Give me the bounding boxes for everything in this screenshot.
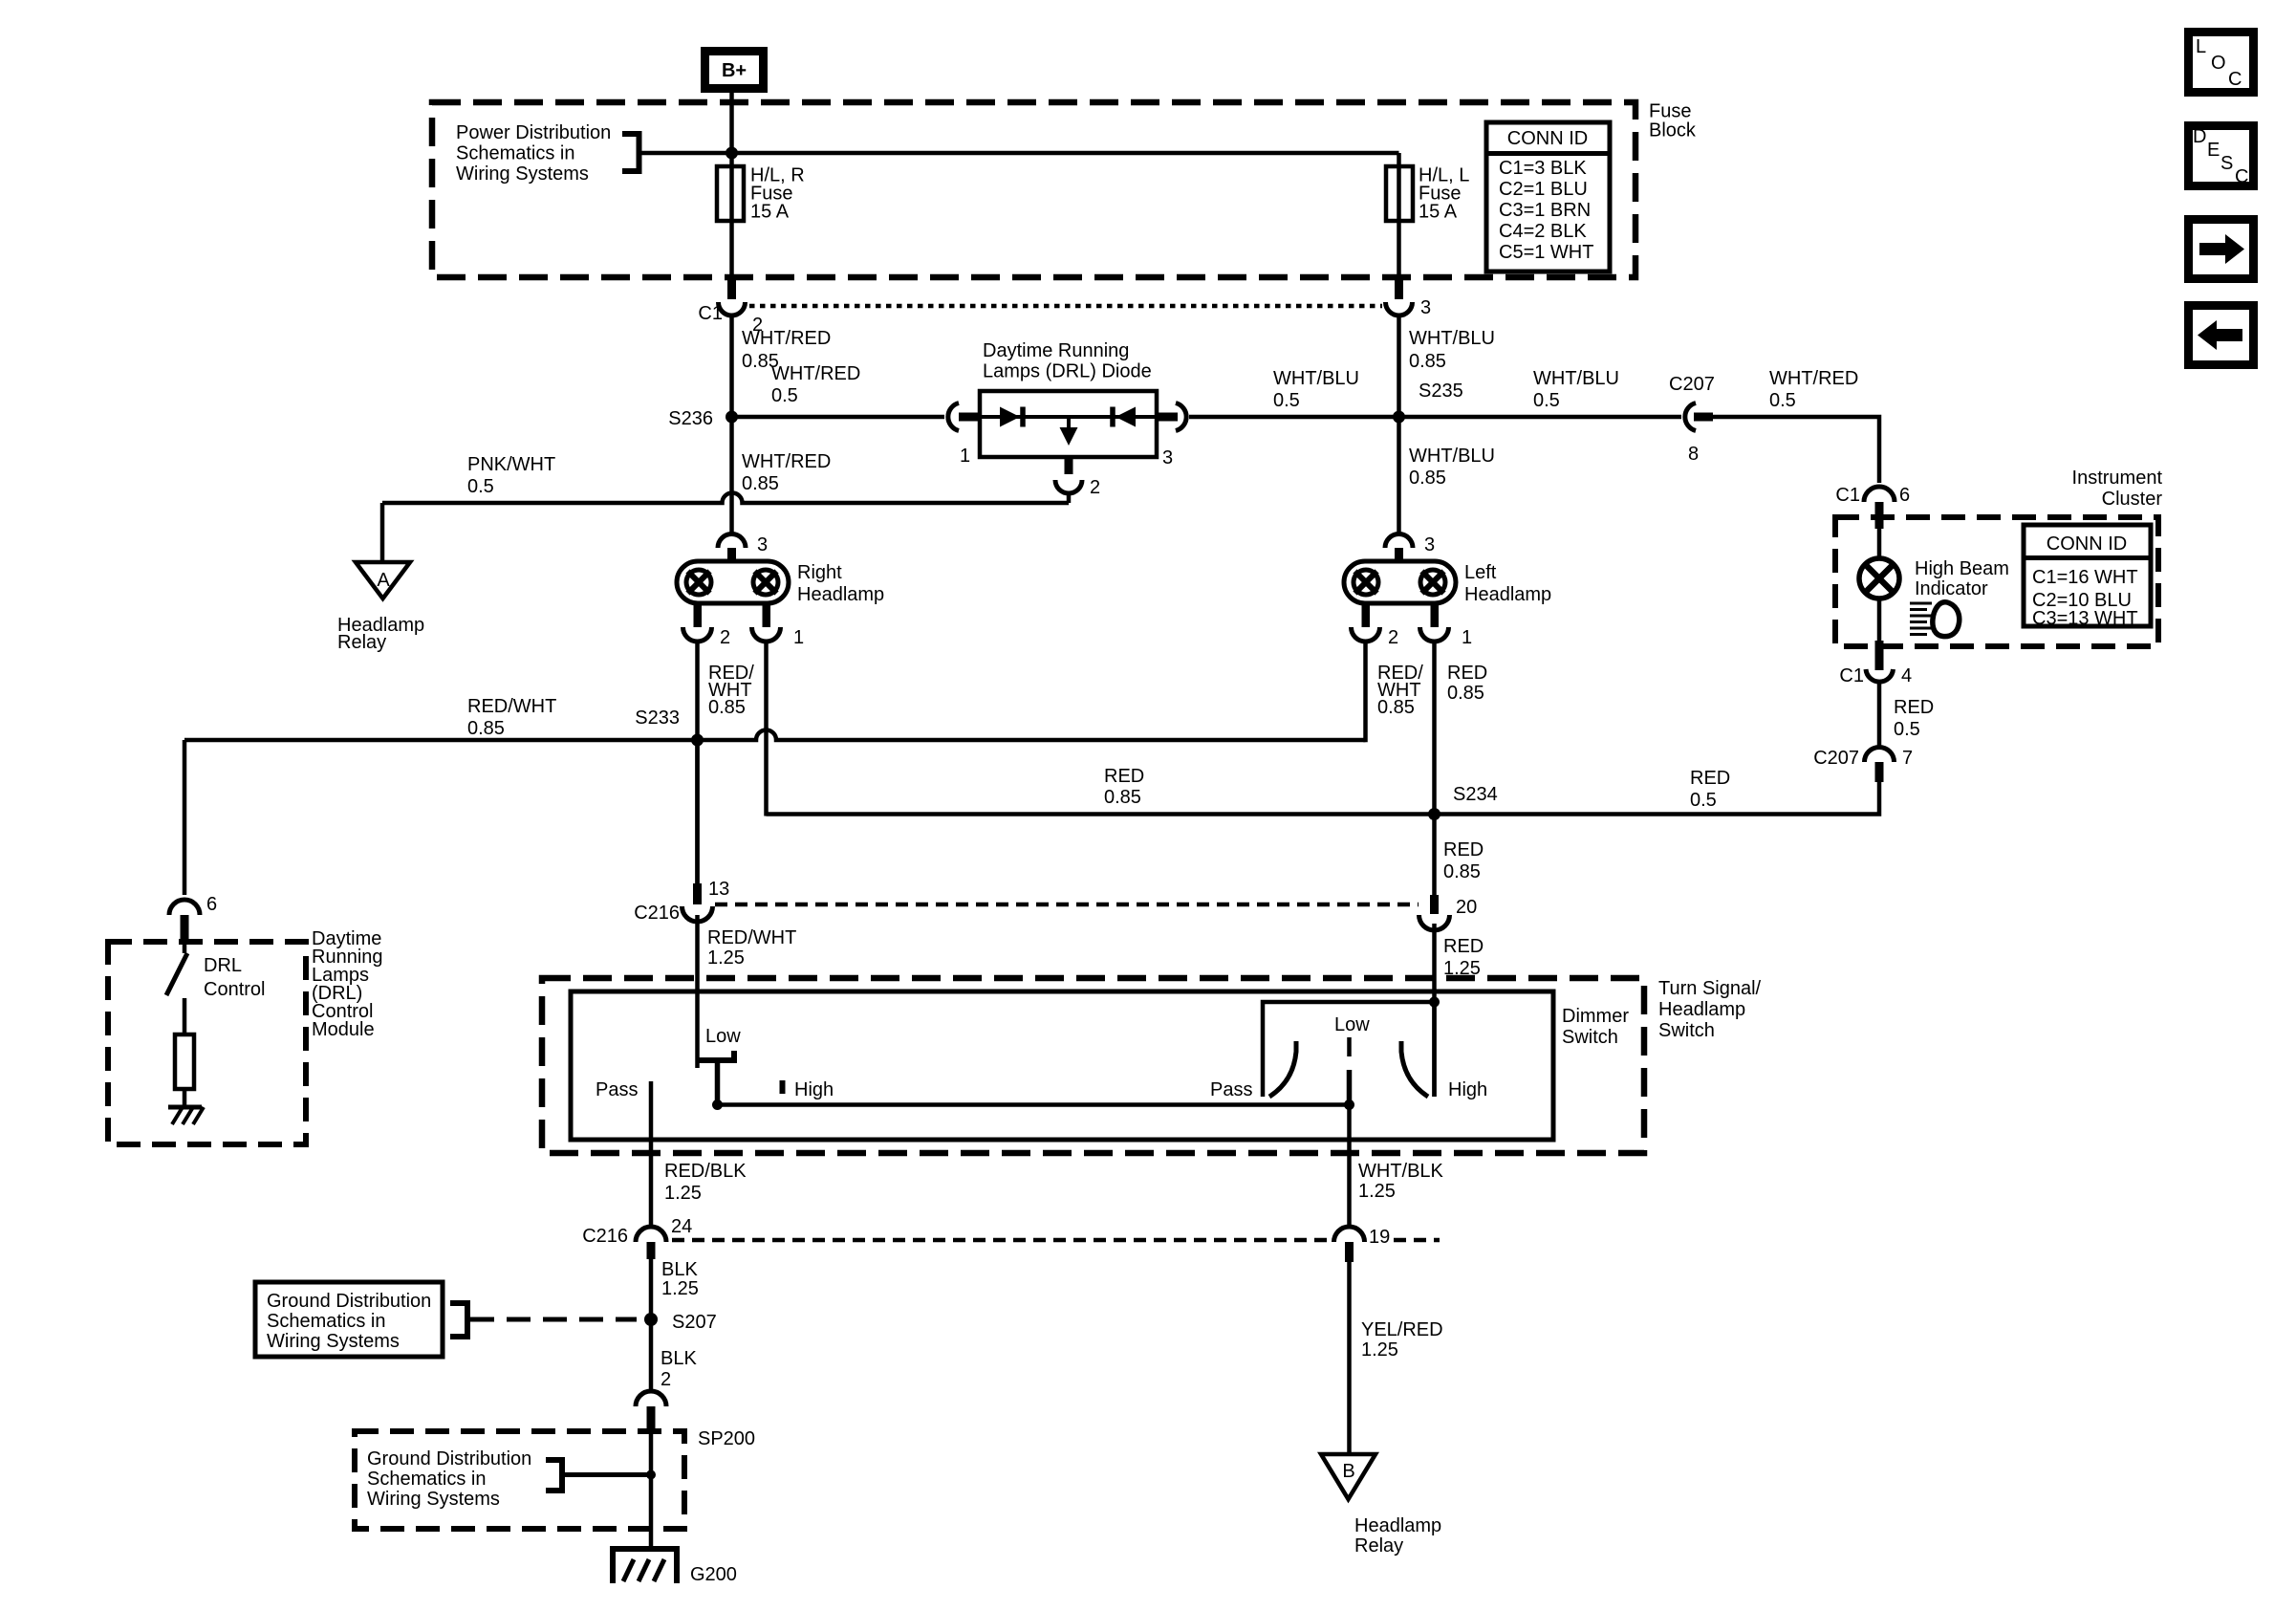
right headlamp pin 2 connector [683, 603, 731, 648]
label RED/WHT 0.85 right headlamp [708, 663, 754, 718]
high beam indicator bulb [1859, 558, 1899, 599]
svg-text:CONN ID: CONN ID [2047, 533, 2127, 555]
svg-text:13: 13 [708, 879, 729, 900]
wire power feed bus [641, 151, 1399, 156]
wire fuse R to connector C1-2 [729, 221, 734, 277]
svg-text:15 A: 15 A [1419, 202, 1458, 223]
DRL control module dashed box [108, 942, 306, 1144]
svg-text:1.25: 1.25 [707, 947, 745, 969]
connector C216 face dotted line lower [672, 1238, 1440, 1243]
SP200 dashed box [355, 1431, 684, 1529]
svg-text:1: 1 [1462, 627, 1472, 648]
svg-text:6: 6 [206, 894, 217, 915]
wire C1-6 into cluster [1877, 529, 1882, 560]
svg-text:C1: C1 [1839, 665, 1864, 686]
wire resistor to ground [183, 1089, 187, 1107]
svg-text:1: 1 [960, 446, 970, 467]
high beam indicator label [1915, 558, 2009, 599]
svg-text:Lamps (DRL) Diode: Lamps (DRL) Diode [983, 361, 1152, 382]
label BLK 2 [661, 1348, 697, 1390]
connector C216 pin 19 [1334, 1227, 1391, 1262]
label RED 0.5 right run [1690, 768, 1730, 811]
svg-text:Switch: Switch [1658, 1020, 1715, 1041]
svg-text:S: S [2220, 153, 2233, 174]
svg-text:Wiring Systems: Wiring Systems [456, 163, 589, 185]
svg-text:15 A: 15 A [750, 202, 790, 223]
connector C1 face dotted line [749, 304, 1382, 309]
wire S236 down to right headlamp [729, 417, 734, 534]
svg-text:Wiring Systems: Wiring Systems [267, 1331, 400, 1352]
wire left headlamp pin 1 down to C216-20 [1432, 640, 1437, 897]
svg-text:1.25: 1.25 [664, 1183, 702, 1204]
svg-text:0.5: 0.5 [1690, 790, 1717, 811]
svg-text:RED: RED [1443, 936, 1484, 957]
splice S235 [1393, 381, 1463, 424]
svg-text:3: 3 [1420, 297, 1431, 318]
label WHT/BLU 0.85 below S235 [1409, 446, 1495, 489]
wire S235 to C207 [1189, 415, 1399, 420]
turn signal headlamp switch label [1658, 978, 1762, 1041]
svg-text:Block: Block [1649, 120, 1697, 142]
dimmer right wiper dash [1347, 1037, 1352, 1056]
svg-text:Dimmer: Dimmer [1562, 1006, 1629, 1027]
svg-text:2: 2 [720, 627, 730, 648]
right headlamp lamp symbol [677, 561, 789, 603]
svg-text:B: B [1342, 1461, 1354, 1482]
svg-text:B+: B+ [722, 60, 747, 81]
svg-text:7: 7 [1902, 748, 1913, 769]
junction dot left contact [712, 1099, 723, 1110]
right headlamp pin 3 connector [718, 534, 768, 564]
svg-text:Right: Right [797, 562, 842, 583]
svg-text:BLK: BLK [661, 1348, 697, 1369]
wire S235 to connector C207-8 [1399, 415, 1682, 420]
wire S235 down to left headlamp [1397, 417, 1401, 534]
diode pin 2 connector below [1055, 457, 1100, 498]
splice S236 [668, 408, 738, 429]
svg-text:Module: Module [312, 1019, 375, 1040]
label RED 0.85 left headlamp [1447, 663, 1487, 704]
svg-text:Schematics in: Schematics in [456, 143, 575, 164]
splice S233 [635, 708, 704, 747]
wire left headlamp pin 2 to S233 line [1363, 640, 1368, 742]
ground distribution note box lower [367, 1448, 531, 1510]
svg-text:C1: C1 [698, 303, 723, 324]
instrument cluster connector C1 pin 4 [1839, 641, 1912, 686]
svg-text:C3=13 WHT: C3=13 WHT [2032, 608, 2138, 629]
svg-text:C2=1 BLU: C2=1 BLU [1499, 179, 1588, 200]
svg-text:CONN ID: CONN ID [1507, 128, 1588, 149]
svg-text:WHT/BLU: WHT/BLU [1409, 446, 1495, 467]
connector C207 pin 7 [1813, 748, 1913, 783]
svg-text:E: E [2207, 140, 2220, 161]
right headlamp label [797, 562, 884, 605]
wire right headlamp pin 2 down to C216-13 [695, 640, 700, 883]
svg-text:G200: G200 [690, 1564, 737, 1585]
dashed link to S207 [470, 1317, 637, 1322]
connector C216 pin 20 [1419, 895, 1478, 930]
svg-text:Power Distribution: Power Distribution [456, 122, 611, 143]
splice S207 [644, 1312, 717, 1333]
left headlamp lamp symbol [1344, 561, 1456, 603]
connector SP200 splice pack [636, 1391, 666, 1431]
svg-text:SP200: SP200 [698, 1428, 755, 1449]
off-page triangle A [356, 562, 410, 599]
svg-text:Low: Low [705, 1026, 741, 1047]
wire RED 0.85 run to instrument cluster [767, 782, 1880, 815]
svg-text:0.5: 0.5 [1273, 390, 1300, 411]
svg-text:L: L [2196, 36, 2206, 57]
label RED/WHT 1.25 [707, 927, 796, 969]
svg-text:3: 3 [757, 534, 768, 555]
wire PNK/WHT to headlamp relay with hop [382, 493, 1069, 504]
svg-text:Cluster: Cluster [2102, 489, 2163, 510]
svg-text:0.5: 0.5 [1533, 390, 1560, 411]
dimmer right feed dot [1429, 997, 1440, 1008]
power distribution note text [456, 122, 611, 185]
high beam icon [1910, 602, 1960, 637]
svg-text:High: High [794, 1079, 834, 1100]
wire C216-20 to dimmer switch [1432, 924, 1437, 1097]
svg-text:Turn Signal/: Turn Signal/ [1658, 978, 1762, 999]
svg-text:0.5: 0.5 [1769, 390, 1796, 411]
off-page triangle B [1321, 1454, 1375, 1499]
svg-text:RED: RED [1443, 839, 1484, 860]
wire bus drop to H/L L fuse [1397, 153, 1401, 166]
wire inside diode box [980, 415, 1157, 419]
fuse F2 value label [1419, 165, 1469, 223]
svg-text:C5=1 WHT: C5=1 WHT [1499, 242, 1593, 263]
svg-text:0.5: 0.5 [467, 476, 494, 497]
svg-text:C1=16 WHT: C1=16 WHT [2032, 567, 2138, 588]
svg-text:Relay: Relay [1354, 1535, 1403, 1557]
svg-text:0.85: 0.85 [1409, 351, 1446, 372]
wire WHT/BLU 0.85 C1-3 to S235 [1397, 315, 1401, 417]
svg-text:WHT/RED: WHT/RED [742, 451, 831, 472]
svg-text:RED/WHT: RED/WHT [467, 696, 556, 717]
wire WHT/RED 0.85 C1-2 to S236 [729, 315, 734, 417]
svg-text:1.25: 1.25 [1358, 1181, 1396, 1202]
svg-text:Headlamp: Headlamp [1354, 1515, 1441, 1536]
link to splice pack wire [562, 1472, 651, 1477]
dimmer right high post [1432, 1002, 1437, 1097]
junction dot right output [1344, 1099, 1354, 1110]
svg-text:0.85: 0.85 [1447, 683, 1484, 704]
junction dot at H/L R fuse tap [726, 147, 738, 160]
svg-text:Headlamp: Headlamp [797, 584, 884, 605]
connector C207 pin 8 [1669, 374, 1715, 465]
svg-text:Ground Distribution: Ground Distribution [267, 1291, 431, 1312]
wire right headlamp RED/WHT down segment [695, 740, 700, 883]
svg-text:1: 1 [793, 627, 804, 648]
svg-text:0.85: 0.85 [1443, 861, 1481, 882]
connector C1 pin 3 [1386, 274, 1432, 318]
label RED 0.5 cluster [1894, 697, 1934, 740]
wire SP200 to G200 [649, 1431, 654, 1549]
label PNK/WHT 0.5 [467, 454, 555, 497]
svg-text:Pass: Pass [596, 1079, 638, 1100]
wire C216-13 to dimmer switch [695, 915, 700, 1068]
connector C216 pin 24 [582, 1216, 692, 1259]
wire S236 to DRL diode pin 1 [732, 415, 945, 420]
wire S233 run with hop over pin1 wire [184, 730, 1366, 741]
connector C216 pin 13 [634, 879, 729, 924]
bracket for power distribution note [622, 134, 639, 171]
svg-text:O: O [2211, 53, 2226, 74]
svg-text:6: 6 [1899, 485, 1910, 506]
svg-text:C207: C207 [1813, 748, 1859, 769]
DRL Control label [204, 955, 265, 1000]
svg-text:0.85: 0.85 [1409, 468, 1446, 489]
bracket ground note upper [450, 1303, 467, 1337]
wire B+ to H/L R fuse [729, 93, 734, 166]
svg-text:RED/BLK: RED/BLK [664, 1161, 747, 1182]
svg-text:WHT/RED: WHT/RED [742, 328, 831, 349]
label WHT/BLU 0.5 mid [1533, 368, 1619, 411]
dimmer output link line [718, 1102, 1350, 1107]
svg-text:C: C [2235, 166, 2248, 187]
svg-text:RED: RED [1690, 768, 1730, 789]
label WHT/BLU 0.85 upper [1409, 328, 1495, 372]
svg-text:0.85: 0.85 [708, 697, 746, 718]
wire right headlamp pin 1 down to RED line [764, 640, 769, 816]
wire drop to relay triangle A [380, 503, 385, 562]
headlamp relay label B [1354, 1515, 1441, 1557]
connector half at diode pin 1 [948, 403, 980, 468]
svg-text:S236: S236 [668, 408, 713, 429]
label RED 1.25 [1443, 936, 1484, 979]
svg-text:4: 4 [1901, 665, 1912, 686]
fuse F1 H/L, R 15A [717, 166, 744, 221]
wire drop to DRL control [183, 740, 187, 895]
svg-text:C3=1 BRN: C3=1 BRN [1499, 200, 1591, 221]
wire output down to C216-19 [1347, 1105, 1352, 1228]
svg-text:WHT/BLU: WHT/BLU [1273, 368, 1359, 389]
DESC nav box [2189, 126, 2254, 188]
wire C216-19 to relay B [1347, 1262, 1352, 1454]
dimmer left pass wire [649, 1081, 654, 1227]
svg-text:Schematics in: Schematics in [367, 1469, 487, 1490]
svg-text:0.85: 0.85 [1377, 697, 1415, 718]
svg-text:S234: S234 [1453, 784, 1498, 805]
label WHT/RED 0.5 [771, 363, 860, 406]
svg-text:Daytime Running: Daytime Running [983, 340, 1129, 361]
svg-text:S235: S235 [1419, 381, 1463, 402]
svg-text:Indicator: Indicator [1915, 578, 1988, 599]
bracket ground note lower [546, 1460, 562, 1491]
diode D1 [1000, 407, 1023, 427]
svg-text:Control: Control [204, 979, 265, 1000]
svg-text:WHT/RED: WHT/RED [771, 363, 860, 384]
right arrow nav box [2189, 220, 2254, 279]
svg-text:C207: C207 [1669, 374, 1715, 395]
svg-text:C1: C1 [1835, 485, 1860, 506]
label High left with tick [780, 1079, 834, 1100]
fuse block label [1649, 101, 1697, 142]
svg-text:High Beam: High Beam [1915, 558, 2009, 579]
svg-text:DRL: DRL [204, 955, 242, 976]
svg-text:C1=3 BLK: C1=3 BLK [1499, 158, 1587, 179]
junction dot SP200 [646, 1470, 656, 1480]
dimmer right wiper solid [1347, 1070, 1353, 1105]
svg-text:S207: S207 [672, 1312, 717, 1333]
dimmer switch label [1562, 1006, 1629, 1048]
label RED/WHT 0.85 left run [467, 696, 556, 739]
svg-text:Relay: Relay [337, 632, 386, 653]
wire C1-4 to C207-7 [1877, 682, 1882, 748]
label RED 0.85 long run [1104, 766, 1144, 808]
connector C1 pin 2 [698, 274, 763, 336]
svg-text:RED/WHT: RED/WHT [707, 927, 796, 948]
DRL diode box [980, 391, 1157, 457]
svg-text:YEL/RED: YEL/RED [1361, 1319, 1443, 1340]
left headlamp pin 1 connector [1420, 603, 1473, 648]
svg-text:RED: RED [1447, 663, 1487, 684]
label WHT/RED 0.85 below S236 [742, 451, 831, 494]
svg-text:Left: Left [1464, 562, 1497, 583]
left headlamp pin 3 connector [1385, 534, 1435, 564]
svg-text:0.85: 0.85 [742, 473, 779, 494]
svg-text:Low: Low [1334, 1014, 1370, 1035]
DRL diode label [983, 340, 1152, 382]
svg-text:8: 8 [1688, 444, 1699, 465]
svg-text:BLK: BLK [661, 1259, 698, 1280]
instrument cluster connector C1 pin 6 [1835, 485, 1910, 529]
svg-text:0.85: 0.85 [467, 718, 505, 739]
svg-text:S233: S233 [635, 708, 680, 729]
svg-text:Headlamp: Headlamp [1464, 584, 1551, 605]
connector C216 face dotted line upper [715, 903, 1419, 907]
svg-text:High: High [1448, 1079, 1487, 1100]
connector half at diode pin 3 [1157, 403, 1186, 469]
svg-text:2: 2 [1388, 627, 1398, 648]
svg-text:WHT/BLU: WHT/BLU [1409, 328, 1495, 349]
label RED/BLK 1.25 [664, 1161, 747, 1204]
svg-text:Headlamp: Headlamp [1658, 999, 1745, 1020]
svg-text:1.25: 1.25 [661, 1278, 699, 1299]
battery feed B+ terminal [705, 52, 764, 89]
svg-text:0.5: 0.5 [1894, 719, 1920, 740]
label WHT/RED 0.5 right [1769, 368, 1858, 411]
wire bulb to C1-4 [1877, 599, 1882, 642]
LOC nav box [2189, 33, 2254, 93]
wire drop to C1-6 [1711, 417, 1879, 483]
svg-text:RED: RED [1104, 766, 1144, 787]
svg-text:Ground Distribution: Ground Distribution [367, 1448, 531, 1469]
svg-text:Fuse: Fuse [1649, 101, 1691, 122]
DRL internal ground [168, 1107, 204, 1124]
wire diode pin 2 down [1067, 492, 1072, 503]
diode D2 [1113, 407, 1136, 427]
svg-text:2: 2 [661, 1369, 671, 1390]
dimmer switch solid box [571, 991, 1553, 1140]
label WHT/BLK 1.25 [1358, 1161, 1444, 1202]
instrument cluster dashed box [1835, 517, 2158, 646]
headlamp relay label A [337, 615, 424, 653]
label WHT/BLU left of S235 [1273, 368, 1359, 411]
svg-text:PNK/WHT: PNK/WHT [467, 454, 555, 475]
connector DRL pin 6 [169, 894, 217, 942]
dimmer left low contact [699, 1051, 737, 1105]
fuse F2 H/L, L 15A [1386, 166, 1413, 221]
left headlamp pin 2 connector [1352, 603, 1399, 648]
svg-text:3: 3 [1162, 447, 1173, 468]
label RED 0.85 below S234 [1443, 839, 1484, 882]
turn signal / headlamp switch dashed box [542, 978, 1644, 1153]
svg-text:2: 2 [1090, 477, 1100, 498]
svg-text:Wiring Systems: Wiring Systems [367, 1489, 500, 1510]
left headlamp label [1464, 562, 1551, 605]
CONN ID table fuse block [1486, 122, 1610, 272]
svg-text:A: A [377, 570, 390, 591]
svg-text:20: 20 [1456, 897, 1477, 918]
instrument cluster label [2072, 468, 2163, 510]
right headlamp pin 1 connector [752, 603, 805, 648]
svg-text:Instrument: Instrument [2072, 468, 2163, 489]
DRL module label [312, 928, 383, 1040]
svg-text:C: C [2228, 69, 2242, 90]
svg-text:WHT/BLK: WHT/BLK [1358, 1161, 1444, 1182]
svg-text:19: 19 [1369, 1227, 1390, 1248]
svg-text:0.5: 0.5 [771, 385, 798, 406]
svg-text:Switch: Switch [1562, 1027, 1618, 1048]
label YEL/RED 1.25 [1361, 1319, 1443, 1361]
svg-text:Pass: Pass [1210, 1079, 1252, 1100]
diode D3 center down arrow [1060, 417, 1078, 446]
svg-text:Schematics in: Schematics in [267, 1311, 386, 1332]
label RED/WHT 0.85 left headlamp [1377, 663, 1423, 718]
svg-text:C216: C216 [582, 1226, 628, 1247]
DRL control switch [166, 942, 187, 1034]
svg-text:0.85: 0.85 [1104, 787, 1141, 808]
left arrow nav box [2189, 306, 2254, 365]
wire BLK down to S207 and SP200 [649, 1259, 654, 1391]
dimmer right pass arm [1269, 1041, 1296, 1097]
label WHT/RED 0.85 upper [742, 328, 831, 372]
CONN ID table instrument cluster [2024, 525, 2151, 629]
dimmer right feed to pass post [1263, 1002, 1435, 1097]
wire fuse L to connector C1-3 [1397, 221, 1401, 277]
svg-text:WHT/RED: WHT/RED [1769, 368, 1858, 389]
label BLK 1.25 [661, 1259, 699, 1299]
svg-text:C4=2 BLK: C4=2 BLK [1499, 221, 1587, 242]
svg-text:RED: RED [1894, 697, 1934, 718]
svg-text:1.25: 1.25 [1361, 1339, 1398, 1361]
DRL control resistor [175, 1034, 194, 1089]
dimmer right high arm [1401, 1041, 1428, 1097]
svg-text:D: D [2193, 126, 2206, 147]
svg-text:WHT/BLU: WHT/BLU [1533, 368, 1619, 389]
svg-text:C216: C216 [634, 903, 680, 924]
fuse block dashed box [432, 102, 1635, 277]
ground G200 [610, 1546, 737, 1585]
svg-text:24: 24 [671, 1216, 692, 1237]
svg-text:3: 3 [1424, 534, 1435, 555]
fuse F1 value label [750, 165, 805, 223]
ground distribution note box upper [255, 1282, 443, 1357]
splice S234 [1428, 784, 1498, 820]
